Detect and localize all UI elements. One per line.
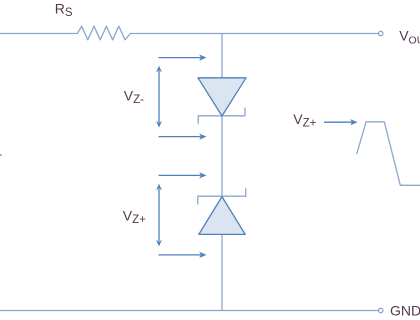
svg-text:GND: GND	[390, 302, 420, 318]
